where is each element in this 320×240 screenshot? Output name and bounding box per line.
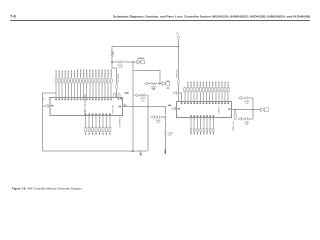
vertical net wire x=148 bbox=[147, 95, 149, 151]
C0883 label bbox=[244, 101, 250, 105]
R0881 value label bbox=[113, 50, 115, 57]
junction on ground rail bbox=[132, 150, 134, 152]
resistor R0884 with arrow bbox=[144, 82, 160, 85]
wire bead to right IC pin1 bbox=[177, 84, 179, 101]
MEM B+ label bbox=[176, 68, 178, 77]
right IC pin2 wire to arrow bbox=[177, 93, 182, 102]
net label CE bbox=[43, 97, 45, 101]
R0884 label bbox=[151, 86, 157, 90]
arrow pin2 bbox=[173, 91, 176, 94]
svg-text:5V MEM B: 5V MEM B bbox=[119, 116, 121, 127]
svg-text:Schematic Diagrams, Overlays,: Schematic Diagrams, Overlays, and Parts … bbox=[113, 15, 310, 19]
junction dot cap branch bbox=[165, 116, 167, 118]
left IC top pin net labels bbox=[56, 70, 112, 78]
wire bead to junction bbox=[177, 40, 179, 47]
bead L0881 top bbox=[177, 35, 179, 39]
left IC interior edge pin numbers bbox=[51, 98, 122, 107]
svg-text:Figure 7-8. UHF Controller Me: Figure 7-8. UHF Controller Memory Schema… bbox=[12, 186, 82, 190]
svg-text:MEM B+: MEM B+ bbox=[176, 68, 178, 77]
off-page connector right bbox=[261, 108, 269, 112]
decoupling cap C0880 row bbox=[151, 116, 165, 119]
right IC top pins bbox=[185, 92, 228, 102]
junction dots bbox=[111, 61, 134, 63]
svg-text:100K: 100K bbox=[118, 67, 123, 69]
resistor R0881 vertical bbox=[111, 47, 113, 63]
svg-text:R0881: R0881 bbox=[113, 50, 115, 57]
wire MEM CS row bbox=[112, 61, 137, 63]
svg-text:MEM 1M: MEM 1M bbox=[112, 105, 114, 114]
IC U0880 name label bbox=[85, 94, 87, 115]
junction dot R0884 net bbox=[159, 83, 161, 85]
left IC right-edge data wire bbox=[123, 107, 166, 115]
tiny label above IC right corner bbox=[125, 92, 129, 93]
labels under resistor network bbox=[85, 133, 110, 135]
ground rail wire (bottom horizontal) bbox=[43, 150, 148, 152]
junction dot x148 bbox=[147, 106, 149, 108]
C0881 label bbox=[167, 132, 173, 136]
resistor R0886 bbox=[234, 110, 236, 120]
IC U0880 aux label bbox=[112, 105, 114, 114]
left IC top pin numbers bbox=[55, 99, 112, 101]
label 5V MEM below right of IC bbox=[119, 116, 121, 127]
IC U0881 body bbox=[177, 101, 232, 117]
cap C0885 row bbox=[238, 117, 253, 120]
left IC outside right corner label bbox=[124, 105, 127, 106]
right IC bottom pin numbers bbox=[190, 115, 214, 117]
left IC top pins (address/data stubs) bbox=[56, 83, 111, 97]
bead L0882 bbox=[177, 80, 179, 84]
right IC top pin net labels bbox=[187, 82, 228, 87]
right IC bottom pins bbox=[191, 118, 213, 129]
connector label bbox=[138, 58, 144, 59]
right IC top pin numbers bbox=[181, 102, 229, 104]
right IC bottom pin boxes bbox=[190, 129, 214, 132]
svg-text:7-8: 7-8 bbox=[10, 14, 17, 19]
series capacitor C0881 bbox=[164, 132, 167, 134]
IC U0881 name label bbox=[218, 106, 220, 113]
off-page connector MEM CS bbox=[137, 60, 145, 64]
C0880 label bbox=[155, 120, 161, 124]
connector labels bbox=[167, 81, 170, 89]
wire bead to IC VCC pin bbox=[116, 89, 118, 97]
vertical net wire x=133 bbox=[132, 62, 134, 151]
vertical tie wire bbox=[252, 98, 254, 119]
svg-text:U0881: U0881 bbox=[218, 106, 220, 113]
label near left-edge pin bbox=[168, 105, 171, 106]
right IC right-edge wire bbox=[232, 109, 261, 111]
right IC bottom pin labels bbox=[191, 132, 214, 134]
arrow + resistor R0885 row bbox=[134, 94, 148, 97]
cap C0883 row bbox=[238, 96, 253, 99]
R0886 net label bbox=[233, 120, 235, 130]
wire B+ horizontal bbox=[112, 46, 178, 48]
right IC left-edge pin arrow bbox=[172, 107, 177, 110]
C0885 label bbox=[244, 122, 250, 126]
left IC bottom pin numbers bbox=[85, 114, 111, 116]
VCC pin boxes near IC top right bbox=[113, 93, 120, 98]
wire down to bead 2 bbox=[177, 47, 179, 80]
left IC bottom pins bbox=[86, 116, 110, 128]
label 7.5V MEM bbox=[118, 74, 120, 84]
ground bar bbox=[165, 149, 166, 154]
bead L0880 bbox=[115, 85, 117, 89]
R0885 label bbox=[140, 98, 146, 102]
svg-text:7.5V MEM: 7.5V MEM bbox=[118, 74, 120, 84]
L wire to RW resistor bbox=[133, 71, 160, 84]
junction dot B+ bbox=[178, 46, 180, 48]
wire: pin1 L to left rail bbox=[43, 93, 56, 151]
R0882 label bbox=[117, 65, 123, 69]
arrow on left-edge pin bbox=[45, 104, 48, 107]
left IC left-edge pin wire bbox=[43, 105, 50, 107]
header rule bbox=[10, 20, 310, 22]
junction dots right wire bbox=[234, 109, 253, 111]
wire down to series cap bbox=[164, 117, 166, 132]
net label near C0880 bbox=[152, 88, 155, 89]
resistor R0882 horizontal bbox=[117, 61, 123, 63]
7.5V MEM feed: wire from R junction to bead bbox=[112, 62, 117, 85]
B+ label bbox=[176, 33, 179, 35]
wire cap to ground bbox=[164, 134, 166, 149]
off-page connector R0884 net bbox=[160, 82, 170, 86]
IC U0880 body bbox=[50, 97, 123, 115]
left IC top pin terminal boxes bbox=[55, 78, 112, 83]
svg-text:CE: CE bbox=[43, 97, 45, 101]
resistor network boxes below left IC bbox=[85, 127, 111, 131]
ground symbol on rail bbox=[139, 151, 142, 156]
svg-text:MEM CSX: MEM CSX bbox=[233, 120, 235, 130]
right IC top pin boxes bbox=[184, 87, 229, 92]
right IC interior edge pin numbers bbox=[178, 108, 231, 110]
signal marks under bottom edge bbox=[191, 119, 214, 120]
